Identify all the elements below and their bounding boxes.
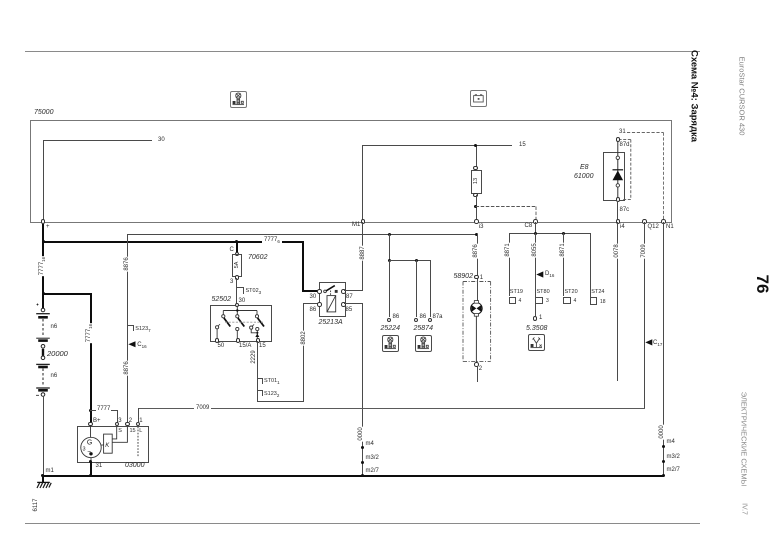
bowtie diode symbol [470, 303, 482, 315]
node to alternator branch [42, 292, 45, 295]
sidebar page number 76 [752, 275, 772, 294]
top rule [25, 51, 700, 52]
wire 8055 to warning lamp [535, 233, 536, 316]
wire 0000/N1 to grounds right [663, 222, 664, 476]
connector S123_2 [257, 390, 263, 391]
alternator B+ node and 7777 jumper [89, 409, 92, 412]
battery negative wire to ground bus [43, 396, 44, 476]
svg-text:3: 3 [83, 446, 86, 452]
main positive bus (thick) [42, 241, 303, 243]
warning lamp 5.3508 pin 1 [533, 316, 538, 321]
arrow D16 [536, 271, 556, 279]
connector ST24 pin 18 [591, 289, 604, 295]
wire 0078 from i4 [617, 222, 618, 381]
wire label 7777_6 on bus [262, 237, 282, 245]
wire to ST24 [590, 233, 591, 297]
relay 87 to 8887 riser [344, 290, 363, 291]
battery positive drop (thick) [42, 242, 44, 310]
connector ST20 pin 4 [565, 289, 578, 295]
diode in E8 [617, 141, 619, 199]
node fuse branch [235, 240, 238, 243]
relay 25213A [319, 282, 345, 317]
wire to relay coil (8802) [257, 401, 304, 402]
ground symbol [34, 476, 56, 492]
wire 8871 to ST20 [563, 233, 564, 296]
sidebar title: Схема №4: Зарядка [689, 50, 700, 142]
icon battery top middle [470, 90, 487, 107]
icon key-lamp top left [230, 91, 247, 108]
sidebar: IV.7 [741, 503, 748, 515]
pin 31 dashed link to N1 [619, 129, 626, 135]
sidebar: ЭЛЕКТРИЧЕСКИЕ СХЕМЫ [740, 392, 749, 487]
arrow C17 [645, 339, 665, 347]
ground bus (bottom) [42, 475, 664, 477]
node: fuse output junction [474, 205, 477, 208]
wire fuse to switch [236, 278, 237, 305]
ground code 6117 [33, 498, 39, 513]
lamp branch junctions [388, 233, 391, 236]
connector S123_7 [127, 325, 134, 326]
wire 87c to i4 terminal [617, 201, 618, 220]
wire 7009 from Q12 [644, 222, 645, 409]
control unit box 75000 [30, 120, 672, 223]
wire 8871 to S119 [509, 233, 510, 296]
connector ST02_3 [236, 287, 243, 288]
connector ST80 pin 3 [537, 289, 550, 295]
wire M1 riser inside 75000 [362, 145, 363, 221]
D+ rail from M1 [362, 222, 363, 234]
svg-text:G: G [87, 439, 92, 446]
diode block 58902 [475, 233, 478, 236]
ignition switch 52502 [212, 296, 231, 303]
thick feed to relay 30 [302, 241, 304, 292]
dashed link to C8 terminal [475, 206, 541, 222]
connector ST01_1 [257, 378, 263, 379]
terminals on 75000 bottom edge [41, 219, 46, 224]
alternator 03000 [88, 422, 93, 427]
C8 distribution cluster [535, 222, 536, 234]
wire 15 and fuse 13 inside 75000 [476, 145, 477, 168]
fuse 70602 branch (thick stub) [236, 242, 238, 253]
battery feed wire from + terminal [42, 224, 44, 242]
thick link to alternator B+ drop [42, 293, 91, 295]
arrow C16 [128, 341, 148, 349]
sidebar: EuroStar CURSOR 430 [738, 57, 747, 136]
node ground bus left [41, 474, 44, 477]
bottom rule [25, 523, 700, 524]
connector ST19 pin 4 [510, 289, 523, 295]
fuse 70602 body [232, 254, 242, 277]
fuse 13 (70602) body in box [471, 170, 482, 195]
lamp 25224 [389, 260, 390, 317]
lamp 25874 [416, 260, 417, 317]
relay 85 down to grounds [344, 303, 363, 304]
diode unit E8 61000 [603, 152, 625, 202]
alternator terminal 31 [89, 460, 92, 463]
node battery bus left [42, 240, 45, 243]
battery 20000 [28, 300, 78, 400]
svg-text:K: K [105, 443, 110, 449]
wire 30 inside 75000 [43, 140, 44, 221]
wire 2229 from switch 15 [257, 341, 258, 402]
7009 horizontal run to alternator L [138, 408, 645, 409]
